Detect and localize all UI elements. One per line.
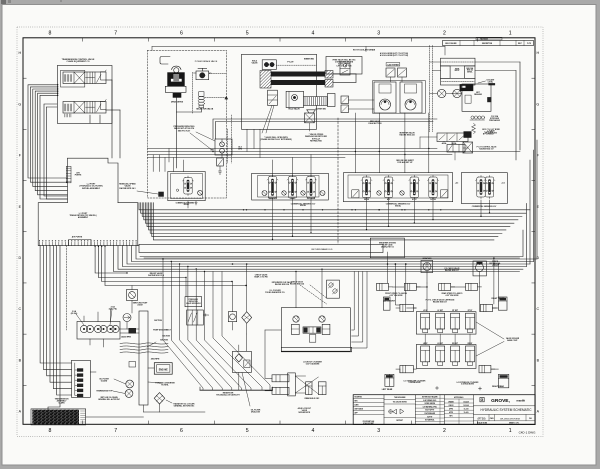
svg-text:DESCRIPTION: DESCRIPTION xyxy=(482,43,492,45)
lockout valve box xyxy=(288,373,296,396)
valve spool aux xyxy=(384,177,392,198)
svg-text:LEFT REAR: LEFT REAR xyxy=(382,388,393,391)
svg-text:4: 4 xyxy=(311,31,314,37)
svg-text:10-30-69: 10-30-69 xyxy=(463,405,469,407)
svg-text:THERMOSTAT TYP: THERMOSTAT TYP xyxy=(96,390,113,393)
svg-text:(GAL PA): (GAL PA) xyxy=(109,308,117,311)
wire loops from transmission valves to reservoir xyxy=(28,85,67,178)
hoist drum manifold bottom bar xyxy=(441,78,476,85)
junction dots main bus xyxy=(387,263,389,265)
center solenoid valve xyxy=(303,327,321,333)
pressure reducing label box xyxy=(185,297,202,307)
wire check valve leaders dashed xyxy=(300,285,327,304)
svg-text:RACINE MOD 224: RACINE MOD 224 xyxy=(290,282,304,285)
outrigger bank lower box xyxy=(416,345,476,369)
svg-text:GROVE,: GROVE, xyxy=(491,398,510,404)
svg-text:3: 3 xyxy=(377,31,380,37)
svg-text:5.50TE24 BORE: 5.50TE24 BORE xyxy=(461,383,475,386)
reservoir port strip xyxy=(66,166,71,182)
svg-text:2: 2 xyxy=(443,31,446,37)
plus marks above title xyxy=(436,387,439,390)
svg-text:LIFT BOOM: LIFT BOOM xyxy=(307,198,316,200)
junction dots bank return line xyxy=(243,209,244,210)
wire diagonal fan to reservoir bar xyxy=(163,259,203,390)
svg-text:4.25" 2X4 BORE: 4.25" 2X4 BORE xyxy=(446,294,460,297)
valve spool steer1 xyxy=(477,177,485,197)
svg-text:D6: D6 xyxy=(529,418,531,420)
svg-text:4.25" 2X4 BORE: 4.25" 2X4 BORE xyxy=(390,294,404,297)
wire valve2 left drops xyxy=(44,104,67,196)
svg-text:REV: REV xyxy=(355,401,358,403)
force mechanical box xyxy=(473,261,486,276)
valve spool boom xyxy=(307,177,315,199)
svg-text:RACINE MOD 224: RACINE MOD 224 xyxy=(275,283,289,286)
accumulator circles row xyxy=(471,116,474,119)
svg-text:DRALCON: DRALCON xyxy=(251,411,261,414)
grove logo xyxy=(480,398,484,402)
svg-text:C4D: C4D xyxy=(490,417,494,420)
main control valve bank left box xyxy=(252,173,329,200)
front steer cylinder right B xyxy=(466,283,478,290)
svg-text:REAR AXLE OSC: REAR AXLE OSC xyxy=(305,397,320,400)
svg-text:RT ST: RT ST xyxy=(468,310,473,312)
pressure reducing valve component xyxy=(187,310,204,325)
svg-text:RACINE MOD 217: RACINE MOD 217 xyxy=(445,269,459,272)
svg-text:G: G xyxy=(536,102,539,106)
left filter circle 1 xyxy=(126,380,134,388)
svg-text:P LTD: P LTD xyxy=(527,43,531,45)
relief valve component xyxy=(127,290,138,301)
valve spool outrigger2 xyxy=(429,177,437,198)
wire valve open leaders xyxy=(262,105,272,133)
wire outrigger verticals xyxy=(395,264,400,305)
svg-text:(CRANE BOOM FULLY EXTENDED): (CRANE BOOM FULLY EXTENDED) xyxy=(260,138,292,141)
wire bus risers right side xyxy=(536,140,538,259)
swing motor left xyxy=(374,82,396,113)
svg-text:GENERAL MOTORS INC: GENERAL MOTORS INC xyxy=(174,405,195,408)
wire motor drops to bank xyxy=(354,113,356,173)
svg-text:VALVE MOD 24C4: VALVE MOD 24C4 xyxy=(186,302,200,305)
torque converter housing xyxy=(139,311,148,405)
wire valve right side drops xyxy=(106,79,112,81)
valve spool steer2 xyxy=(485,177,493,197)
svg-text:SELECTOR VALVE: SELECTOR VALVE xyxy=(196,108,214,111)
svg-text:MODEL: MODEL xyxy=(300,205,306,207)
title block number row xyxy=(488,415,490,421)
relief valve right xyxy=(319,316,325,322)
wire residual leaders xyxy=(137,191,158,194)
third angle projection symbol xyxy=(393,409,397,414)
svg-text:SWING: SWING xyxy=(364,199,370,201)
svg-text:BANK CONT.: BANK CONT. xyxy=(507,339,518,342)
axle lockout manifold box xyxy=(281,308,350,352)
reservoir port comb tick marks xyxy=(39,242,41,245)
svg-text:3: 3 xyxy=(377,428,380,434)
reservoir bottom notch xyxy=(69,240,91,246)
svg-text:GLAND: GLAND xyxy=(101,379,108,382)
svg-text:+6.5: +6.5 xyxy=(501,183,504,185)
svg-text:CLARK: CLARK xyxy=(58,402,65,405)
wire dashed pilot lines xyxy=(227,129,229,163)
lag system label box xyxy=(386,63,400,66)
wire dotted pilot line xyxy=(276,64,316,66)
svg-text:D: D xyxy=(18,256,21,260)
svg-text:H: H xyxy=(18,51,21,55)
wire filter drops xyxy=(238,345,240,351)
swing motors enclosure xyxy=(373,81,426,114)
breather box xyxy=(370,238,404,258)
border outer dotted frame xyxy=(17,27,543,437)
svg-text:H: H xyxy=(536,51,539,55)
relief valve right of PRV xyxy=(217,158,224,166)
svg-text:MFG: MFG xyxy=(449,416,452,418)
relief valve left xyxy=(293,316,299,322)
svg-text:7: 7 xyxy=(114,31,117,37)
check valve component xyxy=(228,312,236,322)
svg-text:5.50/DIA BORE: 5.50/DIA BORE xyxy=(409,381,422,384)
lockout horizontal cylinder 1 xyxy=(272,375,289,382)
wire brake drop xyxy=(175,98,177,168)
valve spool outrigger1 xyxy=(410,177,418,198)
boom hoist assembly box xyxy=(242,54,317,129)
svg-text:POWER BRAKE VALVE: POWER BRAKE VALVE xyxy=(195,60,218,63)
torque converter break waves xyxy=(120,343,168,344)
wire tc bottom connections xyxy=(143,405,145,412)
svg-text:YOUNG RADIATOR CO.: YOUNG RADIATOR CO. xyxy=(265,291,286,294)
wire right column from cooler xyxy=(519,62,521,150)
zone tick marks xyxy=(82,38,84,42)
svg-text:PALM BUTTON: PALM BUTTON xyxy=(369,122,383,125)
valve V1 transmission directional valve upper xyxy=(61,70,85,87)
svg-text:1: 1 xyxy=(509,428,512,434)
junction dots lower bus xyxy=(185,277,186,278)
revision table xyxy=(443,41,534,46)
power brake dashed enclosure xyxy=(148,51,227,199)
svg-text:RACINE MOD 31-4: RACINE MOD 31-4 xyxy=(148,274,164,277)
upper bank right horizontal cylinder xyxy=(481,304,493,311)
bank right outlet symbol xyxy=(441,190,448,198)
svg-text:OUTRIG: OUTRIG xyxy=(430,199,437,201)
hoist drum manifold legs xyxy=(441,66,451,78)
wire cylinder rods xyxy=(333,73,356,75)
upper bank left horizontal cylinder xyxy=(400,304,413,311)
outer mid cylinder xyxy=(304,97,328,106)
check valve PC cartridge component xyxy=(327,280,340,298)
valve spool swing xyxy=(362,177,370,198)
coolant level black piece xyxy=(488,83,495,85)
svg-text:DR-2894-GROVE58: DR-2894-GROVE58 xyxy=(500,418,521,420)
lower bank right horizontal cylinder xyxy=(479,365,491,372)
wire cross lines center xyxy=(148,148,438,150)
svg-text:TOL UNLESS NOTED: TOL UNLESS NOTED xyxy=(393,402,407,404)
wire bottom-left runs xyxy=(86,416,144,418)
right rear jack cylinder xyxy=(498,374,508,387)
wire bank interconnects xyxy=(424,334,426,344)
lockout horizontal cylinder 2 xyxy=(272,387,289,394)
svg-text:SHEET 1 OF 1: SHEET 1 OF 1 xyxy=(509,423,519,425)
note block transmission data xyxy=(31,409,86,425)
right front jack cylinder xyxy=(498,297,507,310)
svg-text:SUCTION: SUCTION xyxy=(160,340,168,342)
valve spool telescope xyxy=(268,177,276,199)
svg-text:4: 4 xyxy=(311,428,314,434)
counterbalance valve block xyxy=(286,91,303,107)
wire axle lockout feeds xyxy=(295,272,297,308)
manifold bottom bar xyxy=(281,347,351,352)
cartridge left xyxy=(292,324,300,334)
brake treadle unit xyxy=(160,57,170,65)
swing relief valves xyxy=(386,68,395,77)
wire rear jack drops xyxy=(388,374,390,386)
funnel symbol xyxy=(307,110,316,113)
reservoir upper box xyxy=(67,158,118,203)
svg-text:NO PER BOLT REQUIRE: NO PER BOLT REQUIRE xyxy=(422,397,438,399)
wire upper return pair xyxy=(140,230,523,257)
title block material list rows xyxy=(415,397,444,399)
svg-text:MODIFIED: MODIFIED xyxy=(355,397,363,399)
svg-text:MO-ST: MO-ST xyxy=(455,70,460,72)
wire manifold stub left xyxy=(138,245,139,247)
valve V2 transmission directional valve lower xyxy=(63,102,106,114)
oil cooler diamond xyxy=(242,312,252,324)
small pump symbol xyxy=(158,192,164,197)
wire lockout X leaders xyxy=(295,376,318,394)
svg-text:PORTS: PORTS xyxy=(75,175,82,177)
wire bundle reservoir to transmission assembly xyxy=(40,246,71,363)
svg-text:LAG SYSTEM: LAG SYSTEM xyxy=(388,63,400,66)
svg-text:DRAIN+TNK CO: DRAIN+TNK CO xyxy=(381,245,394,248)
svg-text:A 9/16-14 BORE (LIFT CYL BT TL: A 9/16-14 BORE (LIFT CYL BT TLB) xyxy=(380,54,409,57)
title block second column xyxy=(384,399,415,401)
svg-text:DETROIT: DETROIT xyxy=(396,420,403,422)
svg-text:HO·ST COOLANT DRAIN: HO·ST COOLANT DRAIN xyxy=(353,49,376,52)
left filter circle 2 xyxy=(125,390,133,398)
hoist drum manifold top bar xyxy=(441,58,476,66)
svg-text:SUCTION: SUCTION xyxy=(154,320,162,322)
title block left column rows xyxy=(353,398,384,400)
wire manifold mid drops xyxy=(95,246,126,273)
svg-text:FLYWHL: FLYWHL xyxy=(161,384,169,386)
wire breather drops xyxy=(426,271,428,284)
pressure reducing valve xyxy=(215,139,232,155)
svg-text:TW (38)GALLON CAPACITY: TW (38)GALLON CAPACITY xyxy=(216,393,240,396)
breather circle component xyxy=(421,261,433,273)
svg-text:GENERAL MILL ALTER INC: GENERAL MILL ALTER INC xyxy=(98,398,121,401)
svg-text:OUTER W/D: OUTER W/D xyxy=(316,108,327,110)
bank right inlet symbol xyxy=(352,190,359,198)
charge pump circle xyxy=(123,314,131,322)
svg-text:MOT: MOT xyxy=(476,92,480,94)
svg-text:HOIST: HOIST xyxy=(290,198,295,200)
wire pilot lines to right xyxy=(213,119,437,139)
svg-text:6: 6 xyxy=(180,31,183,37)
svg-text:SWIVEL: SWIVEL xyxy=(467,72,472,74)
oil filter stack box xyxy=(72,360,91,397)
wire swing to motors xyxy=(349,99,375,101)
svg-text:8: 8 xyxy=(48,428,51,434)
reservoir main box xyxy=(38,203,138,246)
svg-text:RIGHT REAR: RIGHT REAR xyxy=(492,385,504,388)
motor release enclosure xyxy=(462,84,491,111)
svg-text:C: C xyxy=(18,307,21,311)
pilot comp below xyxy=(309,335,315,343)
svg-text:LF EXT: LF EXT xyxy=(437,310,443,312)
svg-text:2000M: 2000M xyxy=(137,304,143,306)
lockout vertical cylinder 2 xyxy=(318,382,326,395)
reservoir bottom bar xyxy=(200,389,273,391)
swing motor right xyxy=(400,82,422,113)
selector valve stack xyxy=(199,92,204,97)
wire valve bank return lines xyxy=(139,203,530,210)
wire steer cyl feeds xyxy=(393,286,405,288)
svg-text:6: 6 xyxy=(180,428,183,434)
svg-text:SNAP-1 750 PSI: SNAP-1 750 PSI xyxy=(254,276,268,279)
title block frame xyxy=(353,395,535,425)
solenoid block xyxy=(460,84,474,91)
svg-text:G: G xyxy=(18,102,21,106)
swing inlet small valves xyxy=(341,96,349,104)
left front jack cylinder xyxy=(383,297,390,310)
svg-text:+6.3: +6.3 xyxy=(455,183,458,185)
gear pump P3 xyxy=(107,325,114,332)
note free valve box xyxy=(326,57,362,75)
wire bank tops left xyxy=(272,160,274,177)
svg-text:24000 RPM: 24000 RPM xyxy=(121,336,131,339)
front steer cylinder right A xyxy=(439,283,451,290)
hydraulic motor small dark xyxy=(129,328,137,334)
lift cylinder barrel xyxy=(260,71,271,89)
svg-text:(RT58): (RT58) xyxy=(477,416,485,420)
svg-text:SWIVEL ASSEMBLY: SWIVEL ASSEMBLY xyxy=(82,187,101,190)
svg-text:SUCTION: SUCTION xyxy=(162,336,170,338)
spring symbol xyxy=(472,123,476,133)
svg-text:C: C xyxy=(536,307,539,311)
oil filter assembly center xyxy=(233,351,252,372)
svg-text:RACINE MOD 217: RACINE MOD 217 xyxy=(479,147,493,150)
wire bank leaders X xyxy=(476,322,504,339)
front steer cylinder left B xyxy=(404,283,416,290)
wire engine link xyxy=(148,367,154,369)
wire main return bus lines xyxy=(136,246,537,259)
cartridge right xyxy=(322,324,330,334)
svg-text:NUT FIT: NUT FIT xyxy=(427,416,432,418)
jib valve xyxy=(447,145,465,153)
left rear jack cylinder xyxy=(385,374,394,386)
svg-text:RACINE MFD 24-1: RACINE MFD 24-1 xyxy=(119,187,135,190)
svg-text:GPM: GPM xyxy=(238,149,243,151)
svg-text:FOR ALB SET UP: FOR ALB SET UP xyxy=(398,161,414,164)
wire hoist drain long line xyxy=(152,46,445,48)
svg-text:5.50" DIA BORE: 5.50" DIA BORE xyxy=(306,362,320,365)
power brake valve component xyxy=(198,67,207,69)
bank left end circles xyxy=(262,191,267,196)
main control valve bank right box xyxy=(343,173,452,202)
wire axle lockout risers xyxy=(352,272,355,331)
valve assembly box xyxy=(57,66,112,124)
svg-text:8: 8 xyxy=(48,31,51,37)
svg-text:5: 5 xyxy=(246,428,249,434)
svg-text:DRUM DRIVE: DRUM DRIVE xyxy=(171,101,184,103)
svg-text:A·R PORTS: A·R PORTS xyxy=(72,236,83,239)
svg-text:5: 5 xyxy=(246,31,249,37)
svg-text:BY·CONNECT: BY·CONNECT xyxy=(483,134,495,136)
svg-text:2800 RPM: 2800 RPM xyxy=(151,358,160,360)
retract valve xyxy=(305,113,315,123)
svg-text:MODEL: MODEL xyxy=(395,205,401,207)
svg-text:11-2-69: 11-2-69 xyxy=(464,409,469,411)
left small box xyxy=(129,362,136,368)
svg-text:RETRACTED: RETRACTED xyxy=(310,139,322,142)
svg-text:VALVE: VALVE xyxy=(251,62,258,65)
svg-text:HOLD VALVE: HOLD VALVE xyxy=(288,107,300,110)
lockout vertical cylinder 1 xyxy=(306,382,312,395)
svg-text:7: 7 xyxy=(114,428,117,434)
pilot check valve component xyxy=(340,62,350,75)
wire pumps suction to torque converter xyxy=(120,332,139,334)
wire reservoir far-left drop xyxy=(48,246,60,410)
bank right circles xyxy=(377,191,381,195)
engine box xyxy=(154,363,172,375)
wire pump inlet stubs xyxy=(83,316,85,322)
front steer cylinder left A xyxy=(377,283,389,290)
wire bank bottom drops xyxy=(272,200,274,240)
border inner solid frame xyxy=(23,38,535,425)
svg-text:PRECHARGE: PRECHARGE xyxy=(489,119,501,122)
svg-text:P·ILOT: P·ILOT xyxy=(287,62,294,64)
pilot control valve xyxy=(463,142,473,153)
swing brake circles xyxy=(438,89,446,97)
svg-text:RACINE MOD 224: RACINE MOD 224 xyxy=(399,134,414,137)
svg-text:PUMP DISCONNECT: PUMP DISCONNECT xyxy=(153,330,171,332)
svg-text:REV 7: REV 7 xyxy=(518,43,522,45)
wire brake dashed pilots xyxy=(192,72,194,113)
inverter valve assembly xyxy=(437,133,468,142)
pump group box xyxy=(77,322,120,340)
gear pump P1 xyxy=(80,325,87,332)
boom pilot valve block xyxy=(262,60,276,70)
wire inverter connections xyxy=(451,142,453,145)
valve spool hoist xyxy=(288,177,296,199)
radiator cooler diamond xyxy=(154,393,165,404)
svg-text:1: 1 xyxy=(509,31,512,37)
svg-text:INNER W/D: INNER W/D xyxy=(304,59,315,61)
wire charge group risers xyxy=(152,155,154,172)
svg-text:G: G xyxy=(481,398,484,402)
svg-text:MOD/MFORCE: MOD/MFORCE xyxy=(298,412,311,414)
svg-text:ASSEMBLY: ASSEMBLY xyxy=(78,216,89,219)
svg-text:TELESCOPE: TELESCOPE xyxy=(268,198,277,200)
svg-text:RETURN MANIFOLD: RETURN MANIFOLD xyxy=(311,248,332,251)
svg-text:2: 2 xyxy=(443,428,446,434)
svg-text:MODEL: MODEL xyxy=(184,204,190,206)
hold valve cartridge xyxy=(268,90,278,105)
svg-text:ENG·NE: ENG·NE xyxy=(159,369,168,371)
svg-text:RACINE MOD 217: RACINE MOD 217 xyxy=(433,300,447,303)
aux valve bank far right box xyxy=(461,173,507,204)
svg-text:CHECK: CHECK xyxy=(449,405,454,407)
svg-text:COMMERCIAL SHEARING VLV: COMMERCIAL SHEARING VLV xyxy=(472,205,497,208)
hoist cylinder dark symbol xyxy=(464,131,472,138)
svg-text:HYDRAULIC SYSTEM SCHEMATIC: HYDRAULIC SYSTEM SCHEMATIC xyxy=(480,408,532,412)
charge oil valve bank xyxy=(168,172,205,201)
outrigger bank upper box xyxy=(416,312,476,334)
svg-text:manlift: manlift xyxy=(517,399,526,403)
wire pump leader lines xyxy=(76,314,84,325)
return manifold xyxy=(139,244,383,252)
svg-text:SEE PG 78-57: SEE PG 78-57 xyxy=(178,130,190,132)
lower bank left horizontal cylinder xyxy=(400,365,413,372)
wire relief row connections xyxy=(131,286,133,290)
